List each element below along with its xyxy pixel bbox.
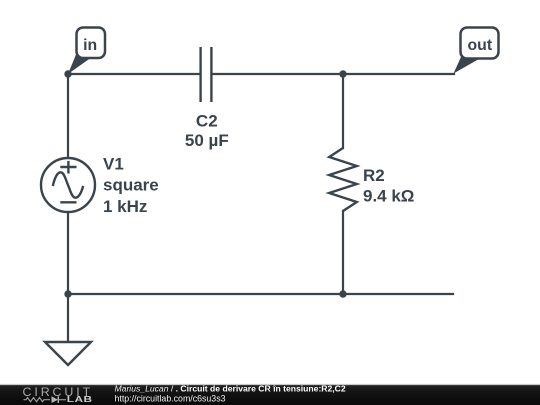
svg-text:LAB: LAB — [67, 396, 93, 405]
wire top left: node in to capacitor — [68, 73, 200, 75]
svg-text:http://circuitlab.com/c6su3s3: http://circuitlab.com/c6su3s3 — [115, 393, 226, 403]
flag out box — [461, 28, 499, 59]
flag in box — [77, 28, 106, 59]
node in junction dot — [64, 70, 71, 77]
wire ground stub — [67, 294, 69, 342]
svg-text:C2: C2 — [196, 112, 218, 131]
logo resistor squiggle — [24, 398, 51, 402]
capacitor C2 — [201, 47, 212, 102]
voltage source V1 — [41, 158, 95, 212]
node gnd-left junction dot — [64, 290, 71, 297]
svg-text:50 µF: 50 µF — [185, 131, 229, 150]
node out junction dot — [339, 70, 346, 77]
node gnd-right junction dot — [339, 290, 346, 297]
svg-text:V1: V1 — [103, 155, 124, 174]
flag in tail — [68, 55, 92, 75]
footer bar — [0, 384, 540, 405]
flag out tail — [454, 57, 479, 74]
svg-text:Marius_Lucan / . Circuit de de: Marius_Lucan / . Circuit de derivare CR … — [115, 384, 346, 394]
svg-text:1 kHz: 1 kHz — [103, 197, 147, 216]
svg-text:square: square — [103, 176, 159, 195]
wire bottom — [68, 293, 453, 295]
svg-text:out: out — [468, 37, 493, 54]
svg-text:in: in — [83, 37, 97, 54]
wire left vertical upper — [67, 74, 69, 157]
ground — [45, 342, 91, 365]
wire right vertical upper — [342, 74, 344, 148]
wire top right: capacitor to out — [212, 73, 454, 75]
svg-text:R2: R2 — [363, 166, 385, 185]
wire left vertical lower — [67, 213, 69, 294]
resistor R2 — [329, 148, 357, 211]
wire right vertical lower — [342, 211, 344, 294]
svg-text:9.4 kΩ: 9.4 kΩ — [363, 187, 414, 206]
logo diode — [52, 396, 59, 403]
